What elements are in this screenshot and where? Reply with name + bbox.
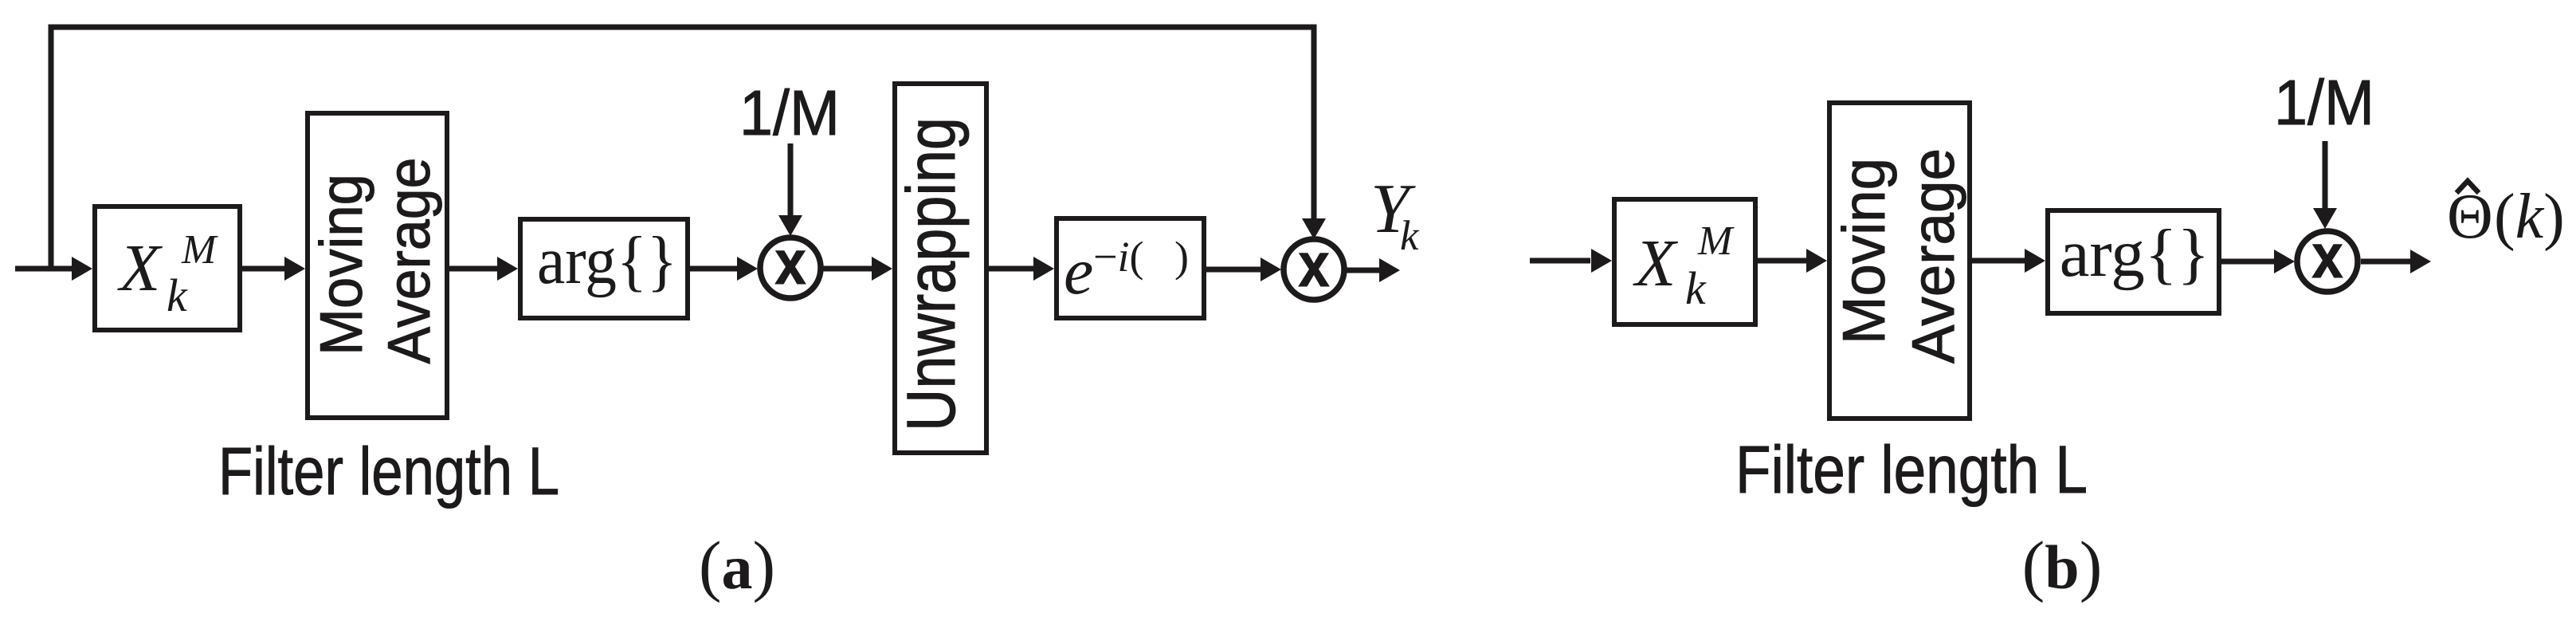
- wire input (b): [1530, 258, 1590, 264]
- svg-text:(k): (k): [2494, 182, 2565, 252]
- block arg{} (a): [520, 219, 688, 318]
- arrowhead into e box (a): [1033, 257, 1054, 281]
- svg-text:): ): [1174, 233, 1189, 281]
- svg-text:X: X: [1633, 226, 1679, 301]
- svg-text:k: k: [167, 269, 188, 321]
- wire X box to Moving Average (b): [1758, 258, 1808, 264]
- svg-text:1/M: 1/M: [2274, 67, 2374, 138]
- arrowhead 1/M into multiplier 1 (a): [778, 215, 802, 236]
- svg-text:1/M: 1/M: [739, 77, 840, 148]
- arrowhead into X box (b): [1591, 249, 1612, 273]
- wire Unwrapping to e box (a): [989, 266, 1035, 272]
- arrowhead into Moving Average (a): [284, 257, 305, 281]
- arrowhead into arg (a): [497, 257, 518, 281]
- svg-text:Average: Average: [375, 158, 442, 364]
- wire 1/M drop (b): [2323, 141, 2328, 208]
- block Unwrapping (a): [895, 84, 986, 453]
- wire output Theta (b): [2361, 259, 2410, 265]
- multiplier circle (b): [2297, 231, 2358, 292]
- block arg{} (b): [2048, 210, 2219, 313]
- svg-text:Moving: Moving: [308, 174, 374, 356]
- arrowhead into multiplier (b): [2274, 250, 2295, 273]
- svg-text:x: x: [774, 228, 806, 297]
- svg-text:Filter length L: Filter length L: [218, 434, 559, 509]
- svg-text:X: X: [117, 231, 163, 305]
- arrowhead into Unwrapping (a): [872, 257, 892, 281]
- svg-text:x: x: [2311, 222, 2343, 291]
- wire arg to multiplier (b): [2221, 259, 2276, 265]
- arrowhead into arg (b): [2025, 249, 2045, 273]
- block Moving Average (b): [1829, 103, 1970, 419]
- svg-text:k: k: [1685, 262, 1707, 314]
- svg-text:M: M: [181, 227, 218, 273]
- block X_k^M (b): [1614, 199, 1755, 324]
- svg-text:k: k: [1400, 213, 1420, 259]
- svg-text:x: x: [1298, 230, 1329, 300]
- wire feedback branch (a): up, across top, down to multiplier 2: [51, 27, 1314, 269]
- wire input (a): [15, 266, 75, 272]
- svg-text:Moving: Moving: [1830, 158, 1897, 344]
- wire Moving Average to arg (a): [449, 266, 499, 272]
- wire 1/M drop (a): [788, 143, 794, 216]
- wire Moving Average to arg (b): [1972, 258, 2026, 264]
- arrowhead into multiplier 1 (a): [737, 257, 758, 281]
- svg-text:Filter length L: Filter length L: [1735, 432, 2088, 507]
- svg-text:Θ: Θ: [2447, 182, 2493, 252]
- svg-text:arg{}: arg{}: [537, 223, 677, 298]
- wire X box to Moving Average (a): [242, 266, 286, 272]
- arrowhead output (b): [2410, 250, 2431, 273]
- svg-text:M: M: [1697, 218, 1735, 264]
- wire output Yk (a): [1347, 268, 1379, 273]
- block Moving Average (a): [308, 113, 447, 418]
- svg-text:e: e: [1064, 234, 1093, 309]
- arrowhead into Moving Average (b): [1806, 249, 1827, 273]
- wire multiplier 1 to Unwrapping (a): [823, 266, 873, 272]
- wire arg to multiplier 1 (a): [690, 266, 739, 272]
- svg-text:(a): (a): [699, 527, 775, 603]
- svg-text:arg{}: arg{}: [2060, 216, 2210, 291]
- wire e box to multiplier 2 (a): [1206, 267, 1263, 273]
- multiplier 1 circle (a): [760, 238, 821, 298]
- svg-text:Average: Average: [1900, 148, 1966, 364]
- multiplier 2 circle (a): [1284, 239, 1344, 300]
- block X_k^M (a): [95, 206, 240, 330]
- block e^-i() (a): [1057, 218, 1204, 318]
- hat accent over Theta (b): [2456, 181, 2479, 193]
- svg-text:(b): (b): [2022, 527, 2103, 603]
- svg-text:−i(: −i(: [1093, 233, 1143, 281]
- arrowhead into multiplier 2 (a): [1261, 257, 1281, 281]
- arrowhead output (a): [1379, 258, 1400, 282]
- arrowhead 1/M into multiplier (b): [2313, 208, 2337, 229]
- svg-text:Unwrapping: Unwrapping: [893, 117, 970, 431]
- arrowhead feedback into multiplier 2 top (a): [1302, 218, 1326, 239]
- arrowhead into X box (a): [72, 257, 92, 281]
